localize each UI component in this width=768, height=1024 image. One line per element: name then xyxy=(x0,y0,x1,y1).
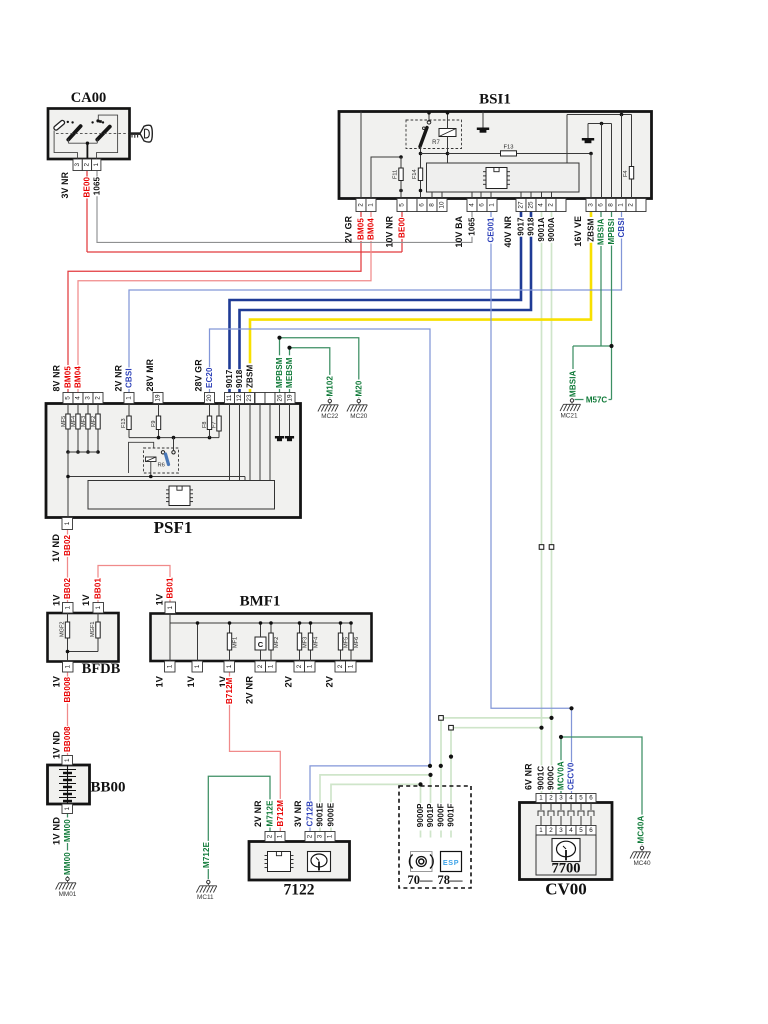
svg-text:BM04: BM04 xyxy=(74,366,83,388)
svg-text:9000E: 9000E xyxy=(327,802,336,826)
svg-text:23: 23 xyxy=(246,394,253,402)
svg-text:1V: 1V xyxy=(155,675,165,687)
svg-text:MC20: MC20 xyxy=(350,413,367,420)
svg-text:MF4: MF4 xyxy=(71,416,77,427)
svg-text:6V NR: 6V NR xyxy=(524,763,534,790)
svg-text:CE001: CE001 xyxy=(487,217,496,243)
svg-text:5: 5 xyxy=(399,203,406,207)
svg-text:BM04: BM04 xyxy=(367,218,376,240)
svg-text:CECV0: CECV0 xyxy=(567,762,576,790)
svg-text:1V ND: 1V ND xyxy=(51,731,61,759)
svg-text:F11: F11 xyxy=(393,170,399,179)
svg-text:2: 2 xyxy=(548,203,555,207)
svg-text:9001F: 9001F xyxy=(447,803,456,826)
svg-text:2: 2 xyxy=(267,834,274,838)
svg-text:1: 1 xyxy=(489,203,496,207)
svg-text:10V NR: 10V NR xyxy=(385,215,395,247)
svg-text:MPBSM: MPBSM xyxy=(275,357,284,388)
svg-text:BMF1: BMF1 xyxy=(240,594,281,610)
svg-text:MCV0A: MCV0A xyxy=(557,761,566,790)
svg-text:1V ND: 1V ND xyxy=(51,534,61,562)
svg-text:3: 3 xyxy=(559,827,563,834)
svg-text:BM05: BM05 xyxy=(64,366,73,388)
svg-text:4: 4 xyxy=(75,396,82,400)
svg-text:6: 6 xyxy=(589,795,593,802)
svg-text:1: 1 xyxy=(93,163,100,167)
svg-text:M20: M20 xyxy=(354,380,363,396)
svg-text:BB00: BB00 xyxy=(90,780,125,796)
svg-text:1V: 1V xyxy=(51,675,61,687)
svg-text:MF3: MF3 xyxy=(81,416,87,427)
svg-text:MEBSM: MEBSM xyxy=(285,357,294,388)
svg-text:9018: 9018 xyxy=(527,217,536,236)
svg-text:MF2: MF2 xyxy=(91,416,97,427)
svg-text:2V: 2V xyxy=(284,675,294,687)
svg-text:1: 1 xyxy=(618,203,625,207)
svg-text:26: 26 xyxy=(277,394,284,402)
svg-text:9001C: 9001C xyxy=(537,766,546,790)
svg-text:10V BA: 10V BA xyxy=(454,215,464,247)
svg-text:78—: 78— xyxy=(438,873,464,887)
svg-text:MBSIA: MBSIA xyxy=(597,218,606,245)
svg-text:CA00: CA00 xyxy=(71,90,106,106)
svg-text:11: 11 xyxy=(226,394,233,401)
svg-text:CV00: CV00 xyxy=(545,880,587,899)
svg-text:F4: F4 xyxy=(623,170,629,177)
svg-text:2: 2 xyxy=(257,664,264,668)
svg-text:5: 5 xyxy=(579,795,583,802)
svg-text:9017: 9017 xyxy=(517,217,526,236)
svg-text:BM05: BM05 xyxy=(357,218,366,240)
svg-text:7122: 7122 xyxy=(284,882,315,899)
svg-text:25: 25 xyxy=(528,201,535,209)
svg-text:MGF2: MGF2 xyxy=(60,621,66,637)
svg-text:F13: F13 xyxy=(504,145,514,151)
svg-text:ESP: ESP xyxy=(443,858,459,867)
svg-text:EC20: EC20 xyxy=(205,367,214,388)
svg-text:1: 1 xyxy=(126,396,133,400)
svg-text:3: 3 xyxy=(588,203,595,207)
svg-text:CBSI: CBSI xyxy=(125,368,134,388)
svg-text:1065: 1065 xyxy=(93,176,102,195)
svg-text:R6: R6 xyxy=(158,463,165,469)
svg-text:1V: 1V xyxy=(81,594,91,606)
svg-text:M102: M102 xyxy=(325,375,334,396)
svg-text:1: 1 xyxy=(306,664,313,668)
svg-text:6: 6 xyxy=(419,203,426,207)
svg-text:1: 1 xyxy=(368,203,375,207)
svg-text:1065: 1065 xyxy=(468,217,477,236)
svg-text:BB02: BB02 xyxy=(63,534,72,555)
svg-text:1: 1 xyxy=(95,606,102,610)
svg-text:12: 12 xyxy=(236,394,243,402)
svg-text:MBSIA: MBSIA xyxy=(569,370,578,397)
svg-text:9000C: 9000C xyxy=(547,766,556,790)
svg-text:3V NR: 3V NR xyxy=(293,800,303,827)
svg-text:1: 1 xyxy=(277,834,284,838)
svg-text:BB008: BB008 xyxy=(63,726,72,752)
svg-text:BB02: BB02 xyxy=(63,578,72,599)
svg-text:1V ND: 1V ND xyxy=(51,817,61,845)
svg-text:1: 1 xyxy=(166,664,173,668)
svg-text:7700: 7700 xyxy=(552,861,581,877)
svg-text:6: 6 xyxy=(479,203,486,207)
svg-text:4: 4 xyxy=(469,203,476,207)
svg-text:1: 1 xyxy=(539,795,543,802)
svg-text:M57C: M57C xyxy=(586,395,608,404)
svg-text:5: 5 xyxy=(65,396,72,400)
svg-text:CBSI: CBSI xyxy=(617,218,626,238)
svg-text:2: 2 xyxy=(358,203,365,207)
svg-text:2V: 2V xyxy=(325,675,335,687)
svg-text:28V GR: 28V GR xyxy=(194,359,204,392)
svg-text:MF4: MF4 xyxy=(313,637,319,648)
svg-text:BB01: BB01 xyxy=(94,578,103,599)
svg-text:20: 20 xyxy=(206,394,213,402)
svg-text:27: 27 xyxy=(518,201,525,209)
svg-text:2: 2 xyxy=(83,163,90,167)
svg-text:F13: F13 xyxy=(121,418,127,428)
svg-text:1V: 1V xyxy=(51,594,61,606)
svg-text:ZBSM: ZBSM xyxy=(587,218,596,241)
svg-text:MM00: MM00 xyxy=(63,819,72,842)
svg-text:B712M: B712M xyxy=(225,677,234,704)
svg-text:2V NR: 2V NR xyxy=(253,800,263,827)
svg-text:9017: 9017 xyxy=(225,369,234,388)
svg-text:F14: F14 xyxy=(412,169,418,179)
svg-text:BB008: BB008 xyxy=(63,676,72,702)
svg-text:9001E: 9001E xyxy=(316,802,325,826)
svg-text:2: 2 xyxy=(549,827,553,834)
svg-text:70—: 70— xyxy=(408,873,434,887)
svg-text:8: 8 xyxy=(608,203,615,207)
svg-text:BB01: BB01 xyxy=(166,577,175,598)
svg-text:8V NR: 8V NR xyxy=(52,364,62,391)
svg-text:3: 3 xyxy=(74,163,81,167)
svg-text:6: 6 xyxy=(589,827,593,834)
svg-text:MF3: MF3 xyxy=(302,637,308,648)
svg-text:9001A: 9001A xyxy=(537,217,546,241)
svg-text:M712E: M712E xyxy=(266,800,275,827)
svg-text:9000P: 9000P xyxy=(416,803,425,827)
svg-text:MF6: MF6 xyxy=(354,637,360,648)
svg-text:6: 6 xyxy=(598,203,605,207)
svg-text:9000F: 9000F xyxy=(437,803,446,826)
svg-text:M712E: M712E xyxy=(202,841,211,868)
svg-text:C712B: C712B xyxy=(306,801,315,827)
svg-text:ZBSM: ZBSM xyxy=(246,365,255,388)
svg-text:1V: 1V xyxy=(155,593,165,605)
svg-text:10: 10 xyxy=(439,201,446,209)
svg-text:19: 19 xyxy=(155,394,162,402)
svg-text:8: 8 xyxy=(429,203,436,207)
svg-text:3: 3 xyxy=(317,834,324,838)
svg-text:1: 1 xyxy=(226,664,233,668)
svg-text:MM01: MM01 xyxy=(59,891,77,898)
svg-text:MC40: MC40 xyxy=(633,860,650,867)
svg-text:2: 2 xyxy=(296,664,303,668)
svg-text:3: 3 xyxy=(85,396,92,400)
svg-text:MF1: MF1 xyxy=(232,637,238,648)
svg-text:F9: F9 xyxy=(151,420,157,427)
svg-text:C: C xyxy=(258,640,264,649)
svg-text:28V MR: 28V MR xyxy=(145,358,155,391)
svg-text:2: 2 xyxy=(337,664,344,668)
svg-text:5: 5 xyxy=(579,827,583,834)
svg-text:MPBSI: MPBSI xyxy=(607,218,616,244)
svg-text:1: 1 xyxy=(64,521,71,525)
svg-text:1: 1 xyxy=(539,827,543,834)
svg-text:MF5: MF5 xyxy=(61,416,67,427)
svg-text:1: 1 xyxy=(64,606,71,610)
svg-text:1: 1 xyxy=(167,606,174,610)
svg-text:2: 2 xyxy=(95,396,102,400)
svg-text:1: 1 xyxy=(267,664,274,668)
svg-text:4: 4 xyxy=(569,795,573,802)
svg-text:3: 3 xyxy=(559,795,563,802)
svg-text:4: 4 xyxy=(569,827,573,834)
svg-text:F8: F8 xyxy=(202,421,208,428)
svg-text:9000A: 9000A xyxy=(547,217,556,241)
svg-text:16V VE: 16V VE xyxy=(573,216,583,247)
svg-text:1: 1 xyxy=(64,758,71,762)
svg-text:BSI1: BSI1 xyxy=(479,92,511,108)
svg-text:2: 2 xyxy=(628,203,635,207)
svg-text:3V NR: 3V NR xyxy=(60,171,70,198)
svg-text:1: 1 xyxy=(347,664,354,668)
svg-text:2V NR: 2V NR xyxy=(245,676,255,704)
svg-text:1: 1 xyxy=(327,834,334,838)
svg-text:MC40A: MC40A xyxy=(637,816,646,844)
svg-text:MGF1: MGF1 xyxy=(90,621,96,637)
svg-text:19: 19 xyxy=(287,394,294,402)
svg-text:PSF1: PSF1 xyxy=(154,518,193,537)
svg-text:MC22: MC22 xyxy=(321,413,338,420)
svg-text:2V GR: 2V GR xyxy=(344,215,354,243)
svg-text:1: 1 xyxy=(64,807,71,811)
svg-text:MC11: MC11 xyxy=(197,894,214,901)
svg-text:MF2: MF2 xyxy=(274,637,280,648)
svg-text:4: 4 xyxy=(538,203,545,207)
svg-text:9001P: 9001P xyxy=(426,803,435,827)
svg-text:1: 1 xyxy=(64,665,71,669)
svg-text:B712M: B712M xyxy=(276,800,285,827)
svg-text:1V: 1V xyxy=(186,675,196,687)
svg-text:R7: R7 xyxy=(432,140,440,146)
svg-text:BFDB: BFDB xyxy=(82,661,121,677)
svg-text:9018: 9018 xyxy=(235,369,244,388)
svg-text:F7: F7 xyxy=(212,421,218,428)
svg-text:2: 2 xyxy=(307,834,314,838)
svg-text:BE00: BE00 xyxy=(398,217,407,238)
svg-text:40V NR: 40V NR xyxy=(503,215,513,247)
svg-text:1: 1 xyxy=(194,664,201,668)
svg-text:MC21: MC21 xyxy=(560,413,577,420)
svg-text:MM00: MM00 xyxy=(63,852,72,875)
svg-text:2: 2 xyxy=(549,795,553,802)
svg-text:BE00: BE00 xyxy=(83,176,92,197)
svg-text:2V NR: 2V NR xyxy=(114,364,124,391)
